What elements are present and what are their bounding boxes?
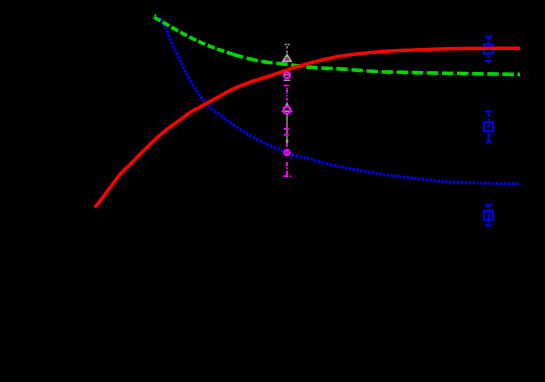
grey dash blob at 141 [286, 140, 289, 143]
point 2 open square marker [484, 122, 493, 131]
grey stem through triangle [286, 56, 288, 62]
grey cap below circle [284, 80, 291, 81]
magenta open circle marker (point 3) [283, 107, 290, 114]
point 3 open square marker [484, 211, 493, 220]
point 2 inverted-Y arrow end [486, 139, 492, 144]
point 1 open square marker [484, 45, 493, 54]
blue curve dot visible at circle edge [290, 157, 292, 159]
grey dash inside circle [284, 74, 290, 75]
magenta dashes on stem [286, 124, 288, 147]
cap at 129 [284, 128, 287, 130]
point 3 bottom cap [485, 225, 492, 227]
green dashed curve (xS) flat part [232, 54, 520, 74]
grey dashed upper error stem [286, 46, 288, 54]
point 3: Y glyph [486, 204, 492, 209]
point 1 lower stem [488, 56, 490, 59]
red solid curve (xuv) [95, 48, 520, 207]
magenta open circle marker (point 2) [284, 72, 290, 78]
magenta bottom cap [283, 175, 288, 177]
magenta open circle marker (point 4) [284, 150, 289, 155]
magenta top cap behind triangle [284, 59, 291, 61]
grey open triangle overlapped on point 3 [283, 104, 291, 112]
point 1 upper stem dash [488, 42, 490, 45]
point 1: Y glyph (arrow end) [486, 36, 492, 41]
point 2: top cap [485, 111, 492, 113]
grey open triangle marker (point 1) [283, 55, 291, 62]
magenta dash-dot lower error stem [286, 162, 288, 177]
green start dot [154, 14, 156, 16]
blue dotted curve (xg ~ steeply falling) [160, 17, 520, 184]
point 2 upper stem dashes [488, 114, 490, 122]
point 2 lower stem [488, 133, 490, 139]
point 1 bottom cap [485, 61, 492, 64]
cap at 134.5 [284, 134, 287, 136]
point 2 stem inside square [488, 123, 490, 128]
point 3 stem through square [488, 210, 490, 224]
mixed dash-dot error stem between point2 and point3 [286, 88, 288, 103]
grey error bar top cap [285, 44, 290, 46]
magenta mini cap at 85.6 [284, 85, 288, 87]
green dashed curve (xS) steep part [154, 17, 232, 54]
magenta stem inside circle [286, 151, 288, 155]
grey lower error stem of point 3 [286, 114, 288, 147]
